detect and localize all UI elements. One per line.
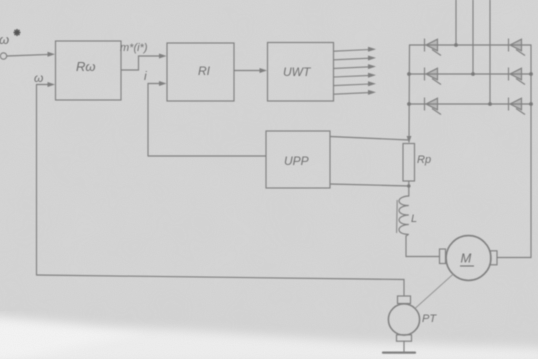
- arrow down into Rp: [407, 136, 412, 143]
- motor armature left brush: [440, 249, 446, 264]
- UWT output pulse fan: [334, 47, 376, 95]
- tacho PT circle: [388, 304, 419, 335]
- thyristor V5: [509, 68, 526, 85]
- wire left bus: [408, 45, 411, 142]
- wire omega into Rw: [37, 84, 50, 86]
- arrow into Rw top input: [48, 52, 56, 57]
- inductor guide line: [396, 201, 399, 233]
- arrow into RI top input: [159, 54, 167, 59]
- wire Rw output step: [121, 56, 160, 70]
- bridge row 2: [409, 73, 531, 75]
- pulse arrow 2: [334, 56, 376, 61]
- pulse arrow 6: [334, 90, 376, 95]
- arrow into RI bottom input: [159, 81, 167, 86]
- wire omega* to Rw: [7, 54, 49, 56]
- node left bus row2: [407, 72, 411, 76]
- node right bus row2: [529, 72, 533, 76]
- thyristor V2: [425, 68, 442, 85]
- PT bottom brush: [397, 335, 412, 341]
- arrow into Rw bottom input: [48, 82, 56, 87]
- underline of M: [460, 265, 474, 267]
- arrowheads: [48, 52, 412, 143]
- bridge row 3: [409, 103, 531, 105]
- terminal omega*: [0, 53, 6, 59]
- pulse arrow 3: [334, 64, 376, 69]
- wire UPP sense bottom: [330, 184, 409, 186]
- white paper edge bottom: [0, 316, 538, 359]
- node Rp bottom sense: [407, 184, 410, 187]
- node left bus row3: [407, 102, 411, 106]
- wire UPP sense top: [330, 137, 409, 141]
- block UWT: [268, 43, 334, 102]
- junction dots: [407, 43, 533, 188]
- block RI: [167, 43, 234, 101]
- wire coil to motor: [406, 235, 440, 257]
- phase line 3: [489, 0, 491, 104]
- PT top brush: [398, 296, 411, 304]
- block UPP: [266, 131, 330, 188]
- wire i feedback vertical: [147, 84, 149, 157]
- thyristor V1: [425, 39, 442, 56]
- node right bus row3: [529, 102, 533, 106]
- arrow into UWT: [260, 68, 268, 73]
- pulse arrow 1: [334, 47, 376, 52]
- inductor L: [399, 196, 409, 234]
- motor M circle: [446, 236, 491, 281]
- pulse arrow 4: [334, 73, 376, 78]
- wire i feedback horizontal to UPP: [148, 155, 266, 157]
- wire omega feedback vertical: [36, 85, 38, 276]
- thyristors: left column: [425, 39, 526, 115]
- node phase2/row2: [471, 72, 475, 76]
- thyristor V4: [509, 39, 526, 56]
- phase line 2: [472, 0, 474, 74]
- tacho feedback wire PT to omega: [37, 275, 405, 296]
- shaft motor to PT: [416, 275, 453, 309]
- thyristor V6: [509, 98, 526, 115]
- wire i into RI: [148, 83, 161, 85]
- bridge row 1: [410, 44, 532, 46]
- node phase3/row3: [488, 102, 492, 106]
- ground stem: [403, 341, 405, 352]
- motor right brush: [491, 251, 498, 265]
- pulse arrow 5: [334, 81, 376, 86]
- ground bar: [383, 352, 415, 354]
- phase line 1: [455, 0, 457, 45]
- wire motor to right bus: [497, 45, 531, 258]
- node phase1/row1: [454, 43, 458, 47]
- block Rw: [56, 41, 122, 100]
- wire RI to UWT: [234, 70, 260, 72]
- thyristor V3: [425, 98, 442, 115]
- resistor Rp: [403, 144, 415, 182]
- wire Rp to coil: [408, 181, 410, 196]
